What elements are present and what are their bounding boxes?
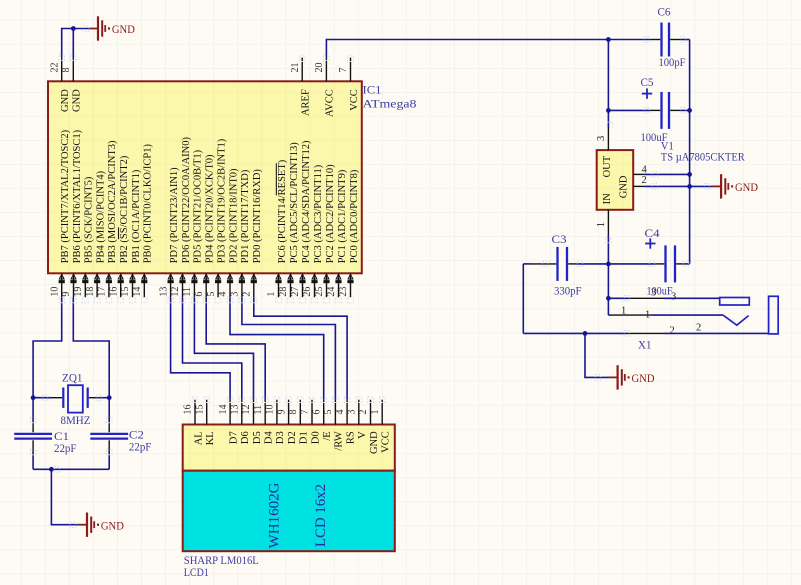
node crystal left (31, 395, 36, 400)
svg-text:GND: GND (735, 180, 758, 194)
V1 pin 3 (top) (607, 127, 609, 150)
node junction pins 22/8 (71, 26, 76, 31)
svg-text:8: 8 (61, 68, 72, 73)
connector X1 pin 1 wire (608, 314, 611, 316)
svg-text:PB5 (SCK/PCINT5): PB5 (SCK/PCINT5) (84, 176, 95, 263)
IC1 pin 9 (PB6) bottom pin (61, 129, 83, 297)
wire PD6-D6 (183, 297, 242, 400)
LCD1 pin 4 (RS) (335, 400, 357, 444)
svg-text:11: 11 (182, 287, 193, 297)
svg-text:15: 15 (194, 405, 205, 415)
svg-text:16: 16 (108, 287, 119, 297)
wire crystal left node down to C1 (32, 398, 34, 422)
svg-text:C5: C5 (641, 75, 654, 89)
svg-text:28: 28 (278, 287, 289, 297)
svg-text:14: 14 (132, 287, 143, 297)
IC1 pin 3 (PD1) bottom pin (230, 169, 252, 297)
wire PB7 to crystal left node (33, 297, 62, 398)
svg-text:13: 13 (158, 287, 169, 297)
node input rail / jack (606, 296, 611, 301)
wire PD4-D4 (206, 297, 265, 400)
svg-text:100uF: 100uF (641, 130, 668, 144)
svg-text:RS: RS (345, 431, 356, 444)
connector X1 tip contact (723, 315, 749, 325)
voltage regulator V1 TS uA7805CKTER body (597, 150, 634, 210)
svg-text:LCD 16x2: LCD 16x2 (313, 484, 329, 547)
svg-text:IN: IN (602, 193, 613, 204)
svg-text:5: 5 (206, 292, 217, 297)
svg-text:PB0 (PCINT0/CLKO/ICP1): PB0 (PCINT0/CLKO/ICP1) (143, 143, 154, 263)
svg-text:12: 12 (241, 405, 252, 415)
wire pin8 to gnd net (72, 29, 74, 58)
svg-text:AREF: AREF (301, 89, 312, 116)
svg-text:3: 3 (596, 136, 607, 141)
svg-text:330pF: 330pF (554, 283, 582, 297)
svg-text:GND: GND (112, 22, 135, 36)
LCD1 pin 3 (V) (347, 400, 369, 439)
svg-text:KL: KL (205, 431, 216, 445)
svg-text:25: 25 (314, 287, 325, 297)
svg-text:14: 14 (218, 405, 229, 415)
crystal ZQ1 8MHZ (33, 371, 109, 427)
svg-text:OUT: OUT (602, 155, 613, 177)
IC1 pin 25 (PC2) bottom pin (314, 164, 336, 297)
svg-text:GND: GND (619, 175, 630, 198)
LCD1 pin 2 (GND) (358, 400, 380, 454)
IC1 pin 11 (PD5) bottom pin (182, 149, 204, 297)
svg-text:PB7 (PCINT7/XTAL2/TOSC2): PB7 (PCINT7/XTAL2/TOSC2) (60, 129, 71, 263)
LCD1 pin 15 (KL) (194, 400, 216, 446)
svg-text:D5: D5 (252, 431, 263, 444)
svg-text:10: 10 (49, 287, 60, 297)
wire crystal bottom rail (33, 468, 109, 470)
svg-text:/RW: /RW (334, 431, 345, 450)
wire crystal rail to ground (51, 469, 78, 524)
svg-text:GND: GND (101, 518, 124, 532)
wire V1 pin1 down input rail (607, 235, 609, 316)
wire C1 to bottom rail (32, 451, 34, 469)
connector X1 sleeve contact (720, 298, 750, 306)
wire gnd net horizontal (73, 28, 89, 30)
svg-text:D0: D0 (310, 431, 321, 444)
ground GND input (609, 365, 655, 389)
LCD1 pin 12 (D5) (241, 400, 263, 444)
LCD1 display body (183, 471, 395, 552)
LCD1 pin 8 (D1) (288, 400, 310, 444)
svg-text:PD3 (PCINT19/OC2B/INT1): PD3 (PCINT19/OC2B/INT1) (216, 138, 227, 263)
svg-text:PB6 (PCINT6/XTAL1/TOSC1): PB6 (PCINT6/XTAL1/TOSC1) (72, 129, 83, 263)
wire right ground rail (689, 40, 691, 264)
wire C3 left leg down (522, 264, 524, 334)
svg-text:GND: GND (632, 371, 655, 385)
svg-text:100pF: 100pF (659, 55, 686, 69)
svg-text:3: 3 (230, 292, 241, 297)
ground GND crystal (78, 513, 124, 537)
svg-text:9: 9 (276, 410, 287, 415)
wire V1 pin2 to rail and gnd (644, 185, 712, 187)
svg-text:PB2 (SS/OC1B/PCINT2): PB2 (SS/OC1B/PCINT2) (119, 155, 130, 263)
IC1 pin 17 (PB3) bottom pin (97, 140, 119, 297)
IC1 pin 12 (PD6) bottom pin (170, 137, 192, 298)
svg-text:7: 7 (300, 410, 311, 415)
svg-text:VCC: VCC (381, 431, 392, 453)
LCD1 pin 10 (D3) (265, 400, 287, 444)
svg-text:11: 11 (253, 405, 264, 415)
svg-text:AVCC: AVCC (325, 89, 336, 117)
svg-text:PD5 (PCINT21/OC0B/T1): PD5 (PCINT21/OC0B/T1) (193, 149, 204, 263)
IC1 pin 28 (PC5) bottom pin (278, 142, 300, 297)
node rail/avcc (606, 37, 611, 42)
capacitor C2 22pF (90, 422, 151, 454)
svg-text:4: 4 (218, 292, 229, 297)
IC1 pin 16 (PB2) bottom pin (108, 155, 130, 297)
node pin4/rail (687, 172, 692, 177)
wire left rail (regulator output) (607, 40, 609, 128)
svg-text:22pF: 22pF (54, 441, 77, 455)
svg-text:GND: GND (369, 431, 380, 454)
IC1 pin 22 (GND) top pin (49, 58, 71, 112)
wire gnd branch (585, 333, 609, 377)
svg-text:PD7 (PCINT23/AIN1): PD7 (PCINT23/AIN1) (169, 167, 180, 263)
svg-text:WH1602G: WH1602G (266, 482, 282, 548)
LCD1 pin 11 (D4) (253, 400, 275, 444)
svg-text:C3: C3 (552, 232, 567, 246)
svg-text:3: 3 (651, 288, 656, 299)
svg-text:C6: C6 (658, 5, 671, 19)
svg-text:IC1: IC1 (363, 83, 382, 97)
svg-text:7: 7 (338, 68, 349, 73)
svg-text:PC5 (ADC5/SCL/PCINT13): PC5 (ADC5/SCL/PCINT13) (289, 142, 300, 264)
svg-text:C4: C4 (645, 226, 660, 240)
svg-text:12: 12 (170, 287, 181, 297)
svg-text:PD1 (PCINT17/TXD): PD1 (PCINT17/TXD) (240, 169, 251, 263)
svg-text:GND: GND (60, 89, 71, 112)
svg-text:1: 1 (266, 292, 277, 297)
IC1 pin 7 (VCC) top pin (338, 58, 360, 111)
capacitor C3 330pF (523, 232, 608, 297)
LCD1 pin 5 (/RW) (323, 400, 345, 451)
IC1 pin 19 (PB5) bottom pin (73, 176, 95, 297)
svg-text:24: 24 (326, 287, 337, 297)
svg-text:4: 4 (335, 410, 346, 415)
capacitor C4 100uF (608, 226, 689, 297)
svg-text:D7: D7 (228, 431, 239, 444)
svg-text:3: 3 (347, 410, 358, 415)
ground GND top-left (89, 16, 135, 40)
svg-text:ZQ1: ZQ1 (62, 371, 83, 385)
LCD1 pin 14 (D7) (218, 400, 240, 444)
IC1 pin 20 (AVCC) top pin (314, 58, 336, 117)
wire PD7-D7 (171, 297, 231, 400)
wire connection markers (30, 26, 710, 528)
IC1 pin 1 (PC6) bottom pin (266, 159, 288, 297)
svg-text:2: 2 (358, 410, 369, 415)
svg-text:PC0 (ADC0/PCINT8): PC0 (ADC0/PCINT8) (349, 169, 360, 263)
wire crystal right node down to C2 (108, 398, 110, 422)
svg-text:PC3 (ADC3/PCINT11): PC3 (ADC3/PCINT11) (313, 164, 324, 263)
svg-text:PD4 (PCINT20/XCK/T0): PD4 (PCINT20/XCK/T0) (205, 154, 216, 263)
svg-text:V: V (357, 431, 368, 439)
V1 pin 1 (bottom) (607, 210, 609, 235)
svg-text:18: 18 (85, 287, 96, 297)
LCD1 pin 16 (AL) (183, 400, 205, 446)
IC1 pin 24 (PC1) bottom pin (326, 169, 348, 297)
capacitor C1 22pF (14, 422, 77, 455)
IC1 pin 21 (AREF) top pin (290, 58, 312, 116)
IC1 pin 10 (PB7) bottom pin (49, 129, 71, 297)
LCD1 pin 13 (D6) (230, 400, 252, 444)
IC1 pin 27 (PC4) bottom pin (290, 140, 312, 297)
IC1 pin 15 (PB1) bottom pin (120, 169, 142, 297)
svg-text:PC1 (ADC1/PCINT9): PC1 (ADC1/PCINT9) (337, 169, 348, 263)
IC U1: microcontroller IC1 ATmega8 body (48, 81, 362, 273)
wire PD1-RW (242, 297, 336, 400)
wire V1 pin4 to rail (644, 173, 689, 175)
svg-text:21: 21 (290, 63, 301, 73)
svg-text:8MHZ: 8MHZ (61, 413, 91, 427)
V1 pin 2 (right lower) (633, 185, 644, 187)
LCD1 pin 6 (/E) (311, 400, 333, 441)
svg-text:6: 6 (194, 292, 205, 297)
wire C2 to bottom rail (108, 451, 110, 469)
svg-text:17: 17 (97, 287, 108, 297)
IC1 pin 18 (PB4) bottom pin (85, 170, 107, 297)
svg-text:PC4 (ADC4/SDA/PCINT12): PC4 (ADC4/SDA/PCINT12) (301, 140, 312, 263)
svg-text:D3: D3 (275, 431, 286, 444)
svg-text:PB3 (MOSI/OC2A/PCINT3): PB3 (MOSI/OC2A/PCINT3) (107, 140, 118, 263)
connector X1 body (769, 296, 779, 334)
svg-text:5: 5 (323, 410, 334, 415)
svg-text:GND: GND (72, 89, 83, 112)
svg-text:1: 1 (596, 222, 607, 227)
svg-text:PD0 (PCINT16/RXD): PD0 (PCINT16/RXD) (252, 169, 263, 264)
wire AVCC pin20 to regulator output rail (326, 40, 649, 58)
LCD1 header (pin band) (183, 425, 395, 471)
svg-text:2: 2 (242, 292, 253, 297)
IC1 pin 23 (PC0) bottom pin (338, 169, 360, 297)
svg-text:19: 19 (73, 287, 84, 297)
IC1 pin 13 (PD7) bottom pin (158, 167, 180, 297)
svg-text:D1: D1 (299, 431, 310, 444)
svg-text:22: 22 (49, 63, 60, 73)
capacitor C6 100pF (650, 5, 690, 70)
IC1 pin 14 (PB0) bottom pin (132, 143, 154, 297)
LCD1 pin 9 (D2) (276, 400, 298, 444)
V1 pin 4 (right upper) (633, 173, 644, 175)
node crystal right (107, 395, 112, 400)
svg-text:27: 27 (290, 287, 301, 297)
svg-text:/E: /E (322, 431, 333, 440)
svg-text:6: 6 (311, 410, 322, 415)
svg-text:PD2 (PCINT18/INT0): PD2 (PCINT18/INT0) (228, 168, 239, 263)
svg-text:8: 8 (288, 410, 299, 415)
svg-text:20: 20 (314, 63, 325, 73)
wire PD5-D5 (194, 297, 253, 400)
svg-text:1: 1 (645, 310, 650, 321)
svg-text:2: 2 (670, 326, 675, 337)
svg-text:PD6 (PCINT22/OC0A/AIN0): PD6 (PCINT22/OC0A/AIN0) (181, 137, 192, 264)
svg-text:2: 2 (642, 175, 647, 186)
wire pin22 to gnd net (62, 29, 74, 58)
svg-text:15: 15 (120, 287, 131, 297)
svg-text:LCD1: LCD1 (184, 565, 209, 579)
LCD1 pin 7 (D0) (300, 400, 322, 444)
wire PB6 to crystal right node (73, 297, 109, 398)
svg-text:2: 2 (696, 323, 701, 334)
svg-text:23: 23 (338, 287, 349, 297)
node C3/C4 input rail (606, 262, 611, 267)
svg-text:PC2 (ADC2/PCINT10): PC2 (ADC2/PCINT10) (325, 164, 336, 263)
svg-text:9: 9 (61, 292, 72, 297)
wire bottom ground rail to jack pin 2 (523, 332, 628, 334)
node rail/C5 right (687, 108, 692, 113)
connector X1 pin 3 wire (608, 297, 629, 299)
IC1 pin 2 (PD0) bottom pin (242, 169, 264, 298)
LCD1 pin 1 (VCC) (370, 400, 392, 453)
IC1 pin 4 (PD2) bottom pin (218, 168, 240, 297)
svg-text:1: 1 (621, 306, 626, 317)
svg-text:1: 1 (370, 410, 381, 415)
svg-text:3: 3 (671, 292, 676, 303)
IC1 pin 5 (PD3) bottom pin (206, 138, 228, 297)
svg-text:16: 16 (183, 405, 194, 415)
IC1 pin 6 (PD4) bottom pin (194, 154, 216, 297)
svg-text:ATmega8: ATmega8 (363, 97, 417, 111)
svg-text:26: 26 (302, 287, 313, 297)
node crystal rail junction (49, 467, 54, 472)
svg-text:AL: AL (193, 431, 204, 445)
node ground rail / gnd branch (583, 331, 588, 336)
svg-text:D6: D6 (240, 431, 251, 444)
svg-text:PB1 (OC1A/PCINT1): PB1 (OC1A/PCINT1) (131, 169, 142, 263)
IC1 pin 26 (PC3) bottom pin (302, 164, 324, 297)
svg-text:22pF: 22pF (129, 439, 152, 453)
node pin2/rail (687, 184, 692, 189)
svg-text:PB4 (MISO/PCINT4): PB4 (MISO/PCINT4) (95, 170, 106, 263)
svg-text:10: 10 (265, 405, 276, 415)
ground GND regulator (713, 174, 759, 198)
node rail/C5 left (606, 108, 611, 113)
IC1 pin 8 (GND) top pin (61, 58, 83, 112)
svg-text:13: 13 (230, 405, 241, 415)
svg-text:TS µA7805CKTER: TS µA7805CKTER (661, 149, 745, 163)
svg-text:PC6 (PCINT14/RESET): PC6 (PCINT14/RESET) (277, 159, 288, 263)
svg-text:D4: D4 (264, 431, 275, 445)
svg-text:VCC: VCC (349, 89, 360, 111)
svg-text:D2: D2 (287, 431, 298, 444)
wire PD2-E (230, 297, 324, 400)
capacitor C5 100uF (608, 75, 689, 144)
wire PD0-RS (254, 297, 347, 400)
svg-text:X1: X1 (638, 338, 652, 352)
